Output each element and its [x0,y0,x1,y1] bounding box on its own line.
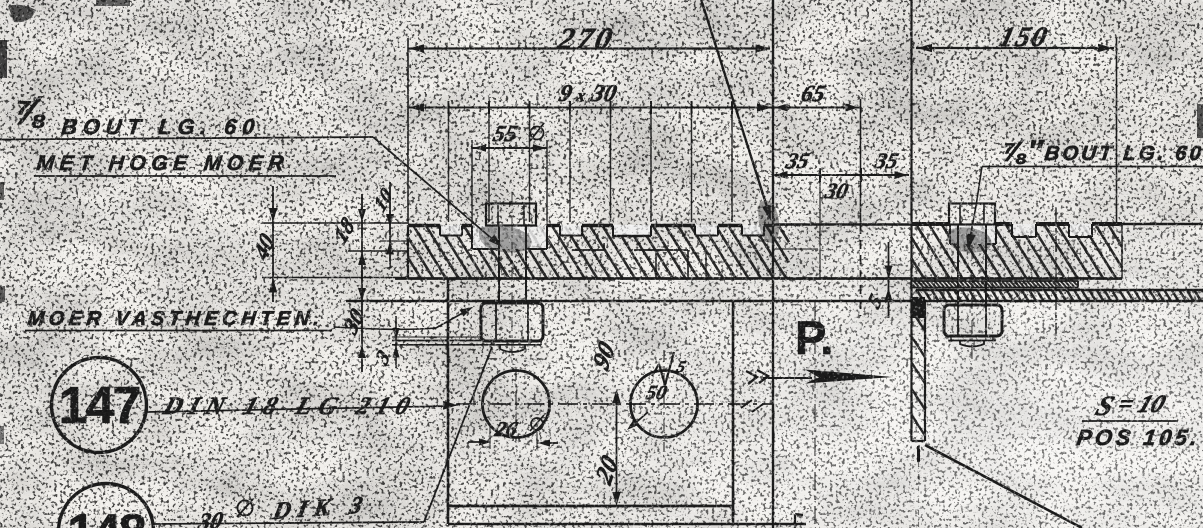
angle-iron vertical leg bar [910,279,912,442]
section chevrons [746,370,768,384]
leader 147 [147,406,451,412]
bolt recess 55ø in plate A [471,226,473,250]
lower line y=524 [448,523,806,526]
force arrow line [763,377,812,379]
washer 30ø dik 3 [392,340,541,342]
surface mark above 50 hole [652,364,659,376]
wire: main vertical edge line x=773 [772,0,774,528]
plate bottom edge [395,277,1122,280]
force arrow solid head [805,370,893,384]
horizontal centerline through holes [456,403,772,405]
hole 26ø circle [483,371,550,438]
dimension 3 (washer thickness) [395,316,397,368]
dim arrows for 26ø [468,441,486,443]
bolt tip right [960,341,984,347]
dimension 30 (nut height) [361,270,363,372]
block bottom edge [448,505,733,508]
centerline x=815 below plate [814,302,816,528]
washer right [951,335,993,337]
bolt shank left [498,225,500,303]
balloon 147 [52,358,147,453]
dimension 55ø [472,147,547,149]
dimension 90 / 20 vertical in block [616,393,618,503]
dark smudge at diagonal/plate corner [758,201,779,243]
wire: diagonal leader line from top edge [700,0,768,210]
leader from note to left bolt [0,137,373,140]
leader right bolt [976,167,982,207]
balloon 148 (cut at bottom) [59,484,154,528]
angle-iron horizontal leg band [916,289,1203,291]
dimension 270 [408,47,770,49]
dimension 150 [916,47,1114,49]
bolt tip below nut [500,345,525,352]
bolt centerline left [511,192,513,368]
dimension 9 x 30 [408,107,773,109]
radius leader arrow [632,412,648,426]
leader 148 to washer [154,522,424,524]
hole 50ø circle [631,371,698,438]
bolt 7/8" right : head above plate [949,204,995,225]
dimension 5 (vertical small) [888,242,890,318]
bolt 7/8" left : head above plate [486,204,536,226]
plate top edge line continuation [773,223,911,226]
extension lines for 40,18,10 dims [262,222,407,224]
lap joint step lines [572,249,604,251]
wire: vertical edge line x=912 [910,0,912,224]
dimension 10 (vertical) [389,182,391,268]
dimension 65 [773,107,860,109]
hex nut right [944,305,1002,336]
diagonal edge line bottom right [925,445,1082,528]
dimension 18 (vertical) [361,194,363,278]
bolt shank right [957,224,959,305]
packing strip S=10 under plates [911,280,1078,282]
smudge at left bolt head [479,225,532,252]
block right edge [732,301,735,524]
scan artifacts [0,40,7,78]
plate A cross-section with hatching [408,227,789,279]
hole centerline x=1056 [1055,207,1057,336]
smudge at right bolt head [947,227,991,252]
bolt recess in plate B [949,224,951,244]
bolt centerline right [971,195,973,362]
block left edge [447,279,450,525]
faint joint line [775,248,818,250]
flange bottom edge [346,300,911,303]
leader to nut [334,310,468,329]
dimension 40 (vertical, left) [272,186,274,302]
dimension 35 30 35 chain [773,174,909,176]
hex nut left (hoge moer) [481,303,543,341]
plate B cross-section with hatching [911,226,1122,279]
